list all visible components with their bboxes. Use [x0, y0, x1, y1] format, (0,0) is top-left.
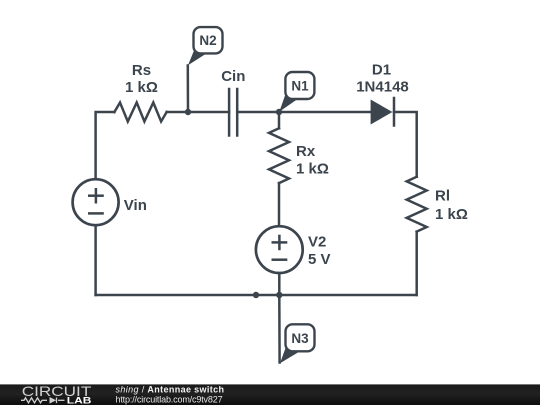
svg-text:V2: V2	[308, 234, 326, 251]
svg-text:Rx: Rx	[296, 143, 316, 160]
svg-text:Rl: Rl	[435, 188, 450, 205]
svg-text:http://circuitlab.com/c9tv827: http://circuitlab.com/c9tv827	[116, 394, 223, 404]
svg-text:1 kΩ: 1 kΩ	[125, 79, 158, 96]
svg-text:N1: N1	[291, 78, 309, 93]
svg-text:N2: N2	[199, 33, 216, 48]
svg-text:N3: N3	[291, 331, 309, 346]
svg-text:1 kΩ: 1 kΩ	[435, 206, 468, 223]
svg-text:Rs: Rs	[132, 62, 151, 79]
svg-text:1 kΩ: 1 kΩ	[296, 161, 329, 178]
svg-text:Vin: Vin	[124, 197, 147, 214]
svg-text:shing / Antennae switch: shing / Antennae switch	[116, 385, 225, 395]
svg-text:D1: D1	[372, 62, 391, 79]
svg-text:Cin: Cin	[221, 68, 245, 85]
svg-text:1N4148: 1N4148	[356, 79, 409, 96]
svg-text:5 V: 5 V	[308, 251, 331, 268]
svg-text:LAB: LAB	[67, 395, 92, 405]
